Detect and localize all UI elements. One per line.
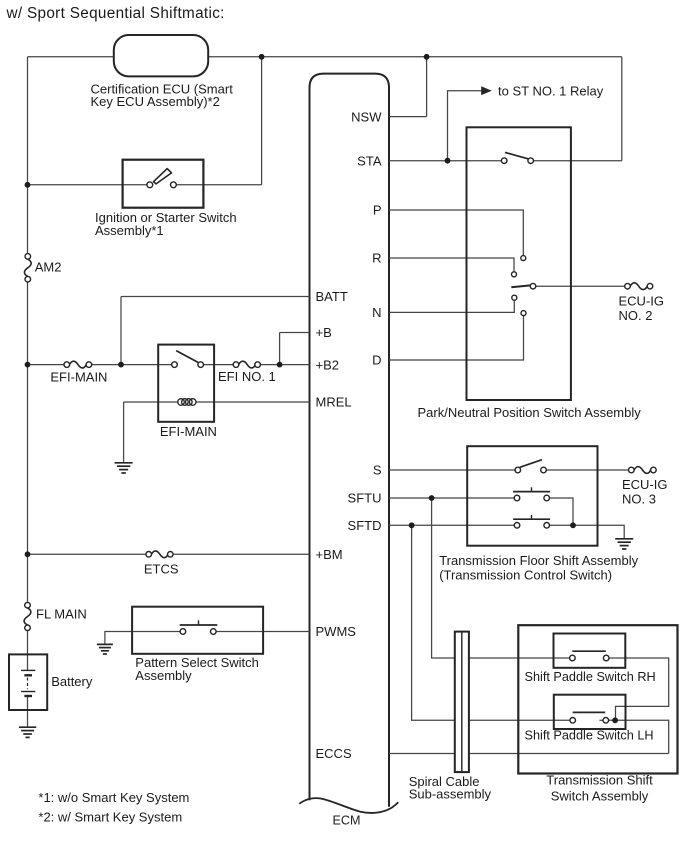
- wire STA row left: [389, 160, 501, 162]
- wire SFTD right to ground corner: [550, 525, 625, 538]
- S switch contact right: [541, 467, 547, 473]
- battery plate short 1: [24, 674, 32, 676]
- battery plate short 2: [24, 695, 32, 697]
- wire EFI row relay to fuse2: [204, 364, 234, 366]
- wire R route: [389, 258, 514, 272]
- battery plate long 1: [21, 669, 35, 671]
- svg-text:+BM: +BM: [316, 547, 343, 562]
- svg-text:FL MAIN: FL MAIN: [36, 607, 87, 622]
- svg-text:ECU-IG: ECU-IG: [619, 293, 665, 308]
- ignition switch lever (wedge): [154, 169, 172, 184]
- wire MREL coil left: [124, 401, 178, 403]
- paddle RH contact right: [603, 655, 609, 661]
- S switch lever: [520, 460, 542, 468]
- node paddle LH junction: [612, 717, 618, 723]
- wire pattern to PWMS: [216, 631, 309, 633]
- wire S row left: [389, 469, 515, 471]
- fusible link FL MAIN: [24, 602, 31, 630]
- wire ECCS row: [389, 753, 669, 755]
- STA switch lever: [505, 152, 528, 158]
- svg-text:Assembly*1: Assembly*1: [95, 223, 164, 238]
- svg-text:EFI-MAIN: EFI-MAIN: [50, 369, 107, 384]
- svg-text:NSW: NSW: [351, 109, 382, 124]
- wire N route: [389, 300, 514, 312]
- SFTU momentary switch: [513, 487, 550, 501]
- svg-text:N: N: [372, 305, 381, 320]
- wire EFI row bus to fuse: [28, 364, 65, 366]
- fuse EFI-MAIN: [64, 361, 92, 368]
- node bus-EFI row: [25, 362, 31, 368]
- SFTD contact right: [544, 523, 550, 529]
- SFTU switch bar: [513, 491, 550, 493]
- wire left bus middle: [27, 282, 29, 602]
- wire BATT horizontal: [121, 296, 310, 298]
- svg-text:*2: w/ Smart Key System: *2: w/ Smart Key System: [38, 810, 182, 825]
- pattern select switch box: [132, 607, 263, 654]
- P contact: [521, 256, 526, 261]
- selector common lever: [511, 285, 530, 287]
- wire paddle LH stub: [600, 719, 603, 721]
- spiral cable sub-assembly bar: [455, 632, 469, 773]
- transmission floor shift assembly box: [467, 446, 597, 546]
- wire MREL coil right to pin: [196, 401, 310, 403]
- node bus-ignition: [25, 182, 31, 188]
- fuse ECU-IG NO.2: [625, 283, 653, 290]
- wire NSW branch vertical: [426, 57, 428, 117]
- pattern switch bar: [180, 624, 218, 626]
- wire paddle LH to ECCS vertical: [609, 720, 669, 753]
- wire D route: [389, 316, 524, 360]
- svg-text:Park/Neutral Position Switch A: Park/Neutral Position Switch Assembly: [418, 405, 642, 420]
- paddle LH contact left: [570, 718, 576, 724]
- wire SFTU right corner down: [550, 498, 574, 525]
- wire paddle RH return: [609, 658, 669, 720]
- svg-text:PWMS: PWMS: [316, 624, 357, 639]
- svg-text:ETCS: ETCS: [144, 562, 179, 577]
- svg-text:+B2: +B2: [316, 357, 340, 372]
- svg-text:Shift Paddle Switch LH: Shift Paddle Switch LH: [525, 728, 654, 742]
- paddle LH bar: [573, 711, 606, 713]
- wire +BM row right: [173, 553, 310, 555]
- wire SFTD row: [389, 524, 514, 526]
- node STA relay branch: [445, 158, 451, 164]
- ignition or starter switch SW1 box: [123, 160, 204, 208]
- svg-text:ECCS: ECCS: [316, 746, 352, 761]
- svg-text:Sub-assembly: Sub-assembly: [409, 786, 492, 801]
- svg-text:R: R: [372, 251, 381, 266]
- ground below relay: [115, 463, 133, 473]
- paddle RH bar: [572, 650, 606, 652]
- Certification ECU box: [114, 35, 208, 76]
- svg-text:STA: STA: [357, 153, 382, 168]
- ignition switch contact right: [171, 182, 177, 188]
- svg-text:Battery: Battery: [51, 674, 93, 689]
- wire top bus left segment: [28, 56, 114, 58]
- svg-text:Switch Assembly: Switch Assembly: [551, 788, 649, 803]
- node top-ignition junction: [259, 54, 265, 60]
- svg-text:EFI NO. 1: EFI NO. 1: [218, 369, 276, 384]
- node bus-+BM row: [25, 551, 31, 557]
- svg-text:ECM: ECM: [333, 813, 361, 827]
- ground below battery: [19, 727, 36, 737]
- wire relay ground vertical: [123, 402, 125, 462]
- relay coil L1: [178, 399, 196, 406]
- svg-text:ECU-IG: ECU-IG: [622, 477, 668, 492]
- wire ignition row left: [28, 184, 147, 186]
- wire pattern switch ground branch: [105, 632, 180, 645]
- pattern switch tick: [198, 620, 200, 625]
- transmission shift switch assembly outer box: [518, 625, 677, 773]
- SFTD switch bar: [513, 518, 550, 520]
- paddle RH contact left: [570, 655, 576, 661]
- selector common contact: [530, 283, 536, 289]
- SFTU contact left: [514, 495, 520, 501]
- svg-text:Transmission Shift: Transmission Shift: [546, 773, 653, 788]
- node SFTD branch: [409, 522, 415, 528]
- wire SFTD branch to paddle LH: [412, 525, 570, 720]
- svg-text:NO. 3: NO. 3: [622, 491, 656, 506]
- wire EFI row fuse2 to +B2 pin: [260, 364, 309, 366]
- battery BT1: [9, 654, 47, 710]
- svg-text:MREL: MREL: [316, 395, 352, 410]
- wire left bus upper: [27, 57, 29, 254]
- ECM U1 (main control module box, rounded top, torn bottom): [299, 74, 398, 813]
- svg-text:NO. 2: NO. 2: [619, 308, 653, 323]
- svg-text:(Transmission Control Switch): (Transmission Control Switch): [439, 568, 612, 583]
- wire ignition row right: [176, 184, 261, 186]
- svg-text:D: D: [372, 353, 381, 368]
- wire SFTU branch to paddle RH: [432, 498, 570, 658]
- svg-text:EFI-MAIN: EFI-MAIN: [160, 424, 217, 439]
- SFTD contact left: [514, 523, 520, 529]
- SFTU contact right: [544, 495, 550, 501]
- node SFTU branch: [429, 495, 435, 501]
- svg-text:+B: +B: [316, 325, 332, 340]
- wire STA row right: [534, 160, 622, 162]
- svg-text:AM2: AM2: [35, 260, 62, 275]
- STA switch contact right: [528, 158, 534, 164]
- node +B branch: [277, 362, 283, 368]
- wire P route: [389, 210, 523, 256]
- wire BATT vertical: [120, 297, 122, 365]
- paddle LH contact right: [603, 718, 609, 724]
- wire ST relay branch: [448, 91, 482, 161]
- fuse ETCS: [146, 551, 173, 558]
- svg-text:*1: w/o Smart Key System: *1: w/o Smart Key System: [38, 790, 189, 805]
- svg-text:SFTU: SFTU: [348, 491, 382, 506]
- wire NSW horizontal: [389, 116, 427, 118]
- fuse EFI NO. 1: [233, 361, 260, 368]
- shift paddle switch RH box: [554, 634, 626, 668]
- node top-NSW junction: [424, 54, 430, 60]
- svg-text:BATT: BATT: [316, 289, 348, 304]
- SFTU switch tick: [531, 487, 533, 491]
- wire S row right to fuse: [546, 469, 628, 471]
- STA switch contact left: [501, 158, 507, 164]
- SFTD momentary switch: [513, 515, 550, 528]
- STA switch: [501, 152, 533, 163]
- fuse ECU-IG NO.3: [629, 467, 657, 474]
- wire left bus lower: [27, 631, 29, 655]
- battery dashed link: [27, 678, 29, 690]
- battery plate long 2: [21, 691, 35, 693]
- svg-text:w/ Sport Sequential Shiftmatic: w/ Sport Sequential Shiftmatic:: [6, 5, 225, 22]
- svg-text:P: P: [373, 203, 382, 218]
- wire battery top lead: [27, 654, 29, 670]
- D contact: [521, 311, 526, 316]
- S switch contact left: [515, 467, 521, 473]
- R contact: [512, 272, 517, 277]
- paddle LH box: [554, 695, 626, 729]
- svg-text:to ST NO. 1 Relay: to ST NO. 1 Relay: [498, 83, 604, 98]
- svg-text:S: S: [373, 463, 382, 478]
- node BATT branch: [118, 362, 124, 368]
- relay contact right: [198, 362, 204, 368]
- svg-text:Transmission Floor Shift Assem: Transmission Floor Shift Assembly: [439, 553, 638, 568]
- relay contact left: [172, 362, 178, 368]
- ground below floor shift: [615, 539, 633, 549]
- pattern switch contact right: [211, 629, 217, 635]
- svg-text:Assembly: Assembly: [135, 668, 192, 683]
- shift paddle switch LH box: [554, 695, 626, 729]
- arrow to ST NO.1 relay: [481, 86, 492, 95]
- svg-text:Shift Paddle Switch RH: Shift Paddle Switch RH: [525, 670, 656, 684]
- wire +B vertical: [279, 333, 281, 365]
- fusible link AM2: [24, 254, 31, 282]
- ground left of pattern switch: [97, 644, 113, 654]
- SFTD switch tick: [531, 515, 533, 519]
- ignition switch contact left: [147, 182, 153, 188]
- svg-text:SFTD: SFTD: [348, 518, 382, 533]
- wire top bus right segment: [208, 56, 622, 58]
- N contact: [512, 295, 517, 300]
- pattern switch contact left: [180, 629, 186, 635]
- relay EFI-MAIN box: [158, 345, 214, 422]
- wire +B horizontal: [280, 332, 310, 334]
- wire right drop to STA: [621, 57, 623, 161]
- node SFTU-SFTD link: [570, 522, 576, 528]
- relay switch lever: [176, 351, 198, 363]
- wire ignition right vertical: [261, 57, 263, 185]
- paddle RH box: [554, 634, 626, 668]
- S switch: [515, 460, 546, 473]
- wire +BM row left: [28, 553, 147, 555]
- wire common output to fuse: [536, 285, 625, 287]
- svg-text:Key ECU Assembly)*2: Key ECU Assembly)*2: [91, 94, 220, 109]
- wire SFTU row left: [389, 497, 514, 499]
- park/neutral position switch assembly box: [467, 127, 571, 400]
- wire battery bottom lead to ground: [27, 696, 29, 727]
- wire EFI row fuse to relay: [92, 364, 172, 366]
